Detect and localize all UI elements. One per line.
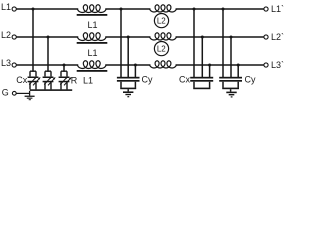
svg-text:Cx: Cx	[16, 75, 27, 85]
svg-text:L1`: L1`	[271, 4, 284, 14]
svg-text:L1: L1	[87, 48, 97, 58]
svg-text:L1: L1	[83, 76, 93, 86]
svg-text:Cy: Cy	[142, 74, 153, 84]
svg-text:L1: L1	[87, 20, 97, 30]
svg-text:L1: L1	[1, 2, 11, 12]
svg-text:L2: L2	[1, 30, 11, 40]
svg-text:L3: L3	[1, 58, 11, 68]
svg-text:R: R	[71, 76, 78, 86]
svg-text:L3`: L3`	[271, 60, 284, 70]
svg-text:Cx: Cx	[179, 74, 190, 84]
svg-text:G: G	[2, 88, 9, 98]
svg-text:L2: L2	[157, 44, 166, 53]
svg-text:L2`: L2`	[271, 32, 284, 42]
svg-text:Cy: Cy	[245, 74, 256, 84]
svg-text:L2: L2	[157, 16, 166, 25]
